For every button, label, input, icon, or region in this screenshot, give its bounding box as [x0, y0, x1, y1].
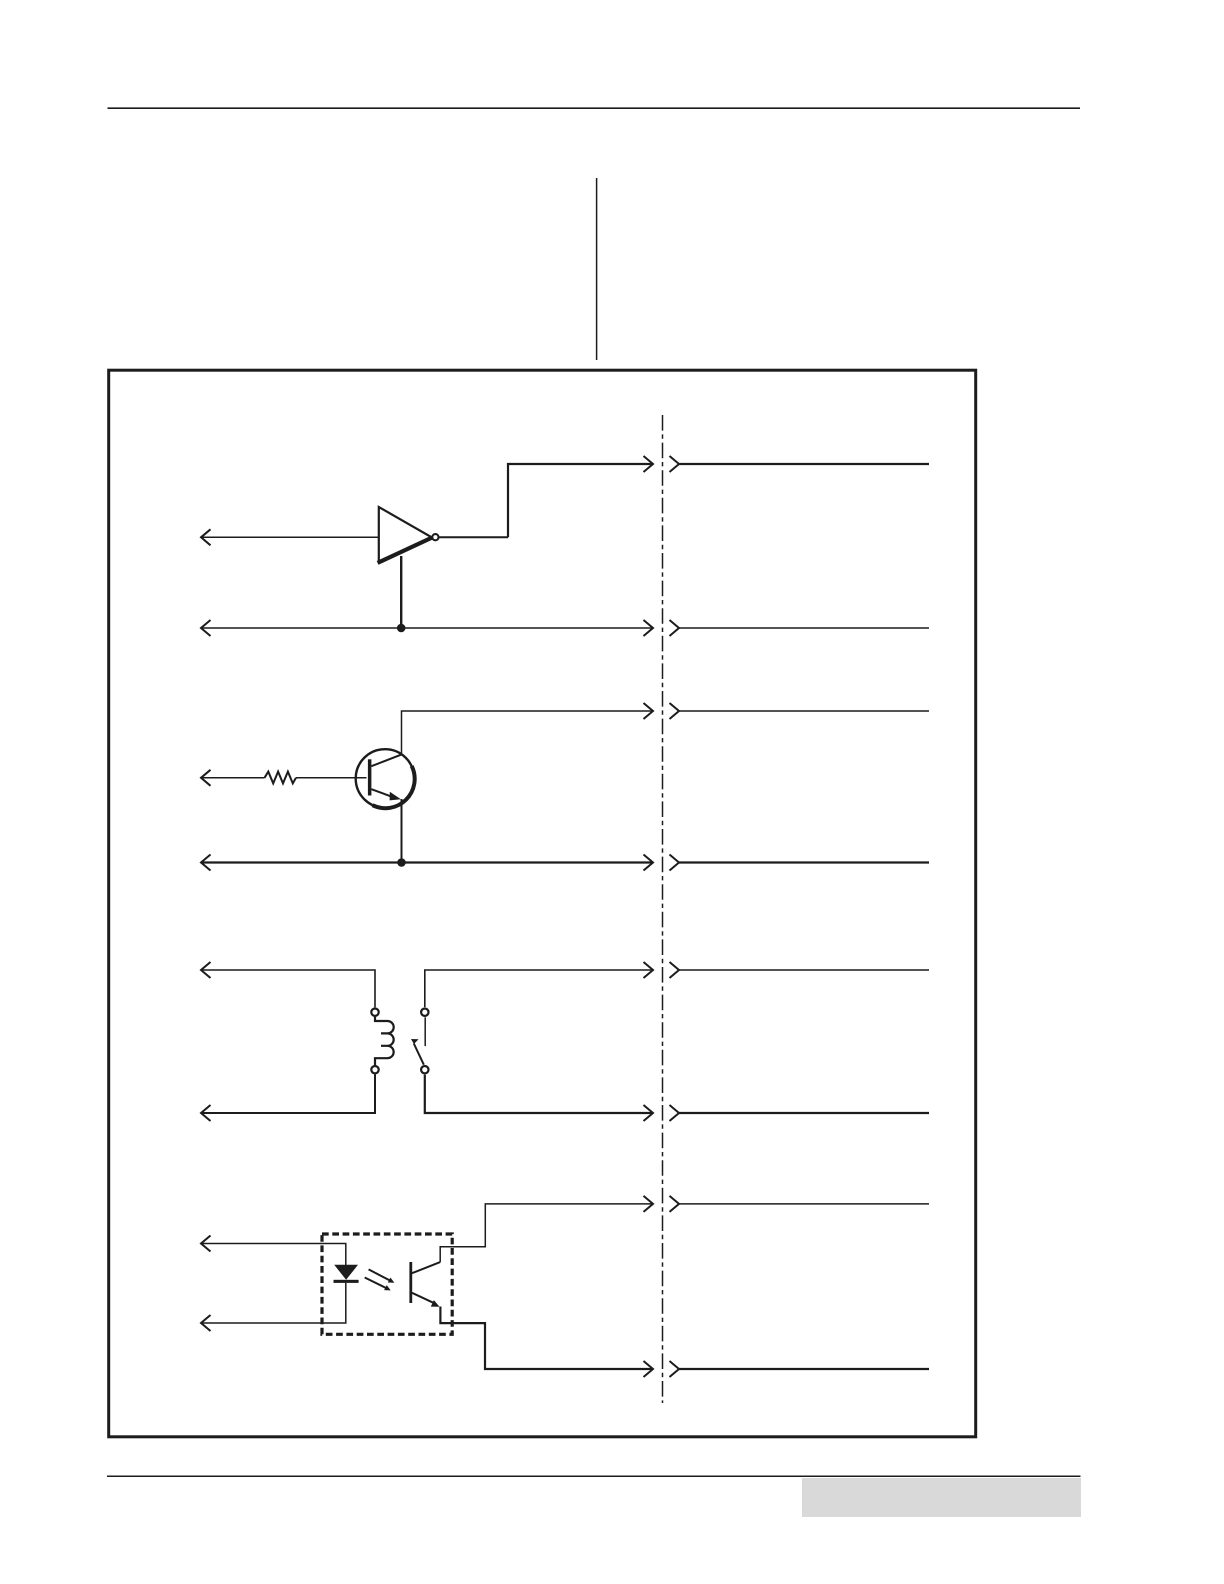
- relay coil top terminal: [371, 1009, 378, 1016]
- LED D1: [334, 1265, 359, 1283]
- wire: relay contact bottom line (right of boundary): [670, 1105, 930, 1121]
- wire: collector top line (right of boundary): [670, 703, 930, 719]
- wire: emitter vertical: [401, 799, 403, 863]
- relay coil K1: [375, 1017, 394, 1065]
- wire: phototransistor emitter line with right arrow: [440, 1307, 653, 1378]
- wire: inverter common vertical: [400, 556, 402, 628]
- wire: relay contact top line (right of boundary): [670, 962, 930, 978]
- figure frame box: [109, 370, 976, 1437]
- wire: inverter output top line (left of boundary): [508, 456, 653, 537]
- relay coil bottom terminal: [371, 1066, 378, 1073]
- wire: opto top line (right of boundary): [670, 1196, 930, 1212]
- callout leader line: [596, 178, 598, 360]
- wire: row1 common line (left of boundary): [201, 620, 653, 636]
- light arrow 2: [365, 1278, 391, 1291]
- light arrow 1: [369, 1269, 395, 1282]
- relay switch blade: [414, 1044, 424, 1065]
- wire: relay contact bottom lead with right arrow: [425, 1075, 653, 1121]
- relay fixed contact stub: [424, 1017, 426, 1046]
- relay contact bottom terminal: [421, 1066, 428, 1073]
- wire: phototransistor collector line with right arrow: [440, 1196, 653, 1262]
- wire: LED anode lead with left arrow: [201, 1236, 346, 1266]
- wire: collector top line (left of boundary): [402, 703, 654, 754]
- footer gray box: [802, 1478, 1081, 1517]
- optocoupler package dashed box: [322, 1234, 452, 1334]
- wire: row2 common line (left of boundary): [201, 855, 653, 871]
- footer rule: [107, 1475, 1081, 1477]
- wire: inverter output top line (right of boundary): [670, 456, 930, 472]
- wire: opto bottom line (right of boundary): [670, 1361, 930, 1377]
- wire: relay contact top lead with right arrow: [425, 962, 653, 1007]
- transistor Q1: [356, 749, 415, 808]
- resistor: [265, 772, 297, 784]
- relay contact top terminal: [421, 1009, 428, 1016]
- wire: row2 common line (right of boundary): [670, 855, 930, 871]
- wire: row1 common line (right of boundary): [670, 620, 930, 636]
- inverter U1: [378, 507, 508, 563]
- header rule: [108, 107, 1081, 109]
- wire: relay coil bottom lead with left arrow: [201, 1074, 375, 1121]
- phototransistor Q2: [409, 1262, 440, 1307]
- wire: base input line with left arrow: [201, 770, 367, 786]
- isolation boundary dash-dot line: [662, 415, 664, 1403]
- relay blade arrowhead: [411, 1039, 419, 1044]
- wire: inverter input line with left arrow: [201, 529, 379, 545]
- junction dot: [397, 624, 406, 633]
- wire: relay coil top lead with left arrow: [201, 962, 375, 1007]
- wire: LED cathode lead with left arrow: [201, 1283, 346, 1331]
- junction dot: [397, 858, 406, 867]
